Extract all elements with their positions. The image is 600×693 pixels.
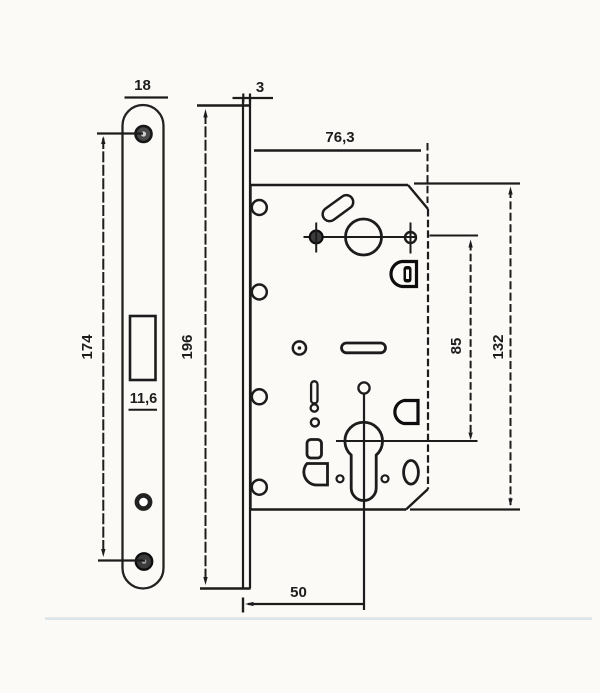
- small circle B: [311, 418, 319, 426]
- dimension 50 left arrow: [245, 602, 254, 606]
- faceplate outline: [123, 105, 164, 589]
- dimension 132 bottom extension: [410, 508, 520, 510]
- faceplate side view right edge: [249, 98, 251, 589]
- follower hole: [346, 219, 382, 255]
- dimension 196 line: [205, 113, 207, 582]
- case lug 2: [252, 285, 267, 300]
- dimension 174 top arrow: [101, 136, 105, 144]
- latch window: [130, 316, 156, 380]
- lock case left edge: [249, 185, 251, 510]
- svg-text:85: 85: [448, 338, 465, 355]
- scan artifact band: [45, 617, 592, 620]
- svg-text:174: 174: [79, 334, 96, 360]
- cylinder stem circle: [358, 382, 369, 393]
- D-shape upper hole: [391, 262, 417, 287]
- middle screw hole: [137, 495, 150, 508]
- lock case right edge: [427, 209, 429, 489]
- lock case top edge: [251, 184, 409, 186]
- euro cylinder hole: [345, 422, 383, 500]
- pivot hole with dot: [293, 341, 306, 354]
- follower center line: [304, 236, 418, 238]
- bottom screw hole: [136, 553, 152, 569]
- dimension 174 line: [102, 138, 104, 553]
- dimension 50 left tick: [242, 598, 244, 613]
- cylinder side hole right: [382, 475, 389, 482]
- lock case bottom-right chamfer: [406, 489, 428, 510]
- D-shape lower-right hole: [395, 401, 418, 424]
- case lug 4: [252, 480, 267, 495]
- svg-text:3: 3: [256, 79, 264, 96]
- D-shape lower-left hole: [304, 464, 328, 486]
- label 11,6 underline: [129, 409, 158, 411]
- dimension 85 top arrow: [468, 240, 472, 248]
- dimension 3 tick right: [249, 94, 251, 103]
- dimension 85 bottom arrow: [468, 433, 472, 441]
- left handle screw hole: [310, 223, 323, 253]
- dimension 174 top extension: [97, 132, 143, 134]
- top screw hole: [136, 126, 152, 142]
- svg-text:196: 196: [179, 334, 196, 359]
- dimension 76,3 line: [254, 149, 421, 151]
- faceplate side view bottom cap: [200, 587, 251, 590]
- dimension 18 line: [125, 96, 169, 98]
- cylinder side hole left: [337, 475, 344, 482]
- tapered slot bottom circle: [311, 404, 318, 411]
- dimension 132 bottom arrow: [508, 499, 512, 507]
- tapered slot: [311, 381, 317, 403]
- dimension 50 line: [248, 603, 364, 605]
- dimension 85 top extension: [430, 235, 479, 237]
- dimension 76,3 right extension: [427, 143, 429, 203]
- svg-text:11,6: 11,6: [130, 391, 157, 407]
- dimension 3 line: [233, 97, 274, 99]
- angled slot: [320, 192, 356, 223]
- dimension 174 bottom extension: [98, 559, 145, 561]
- faceplate side view top extension: [197, 104, 250, 106]
- case lug 3: [252, 389, 267, 404]
- svg-text:18: 18: [134, 77, 151, 94]
- svg-text:76,3: 76,3: [325, 129, 354, 146]
- lock case bottom edge: [251, 508, 407, 510]
- lock case top-right chamfer: [408, 185, 428, 209]
- square hole: [307, 440, 322, 459]
- dimension 85 line: [470, 243, 472, 437]
- dimension 3 tick left: [242, 94, 244, 103]
- horizontal slot: [342, 343, 386, 353]
- dimension 132 top extension: [414, 182, 520, 184]
- dimension 196 top arrow: [203, 109, 207, 118]
- dimension 174 bottom arrow: [101, 549, 105, 557]
- case lug 1: [252, 200, 267, 215]
- svg-text:132: 132: [490, 334, 507, 359]
- dimension 196 bottom arrow: [203, 577, 207, 585]
- faceplate side view left edge: [242, 98, 244, 589]
- cylinder center line: [363, 394, 365, 610]
- dimension 132 line: [510, 190, 512, 505]
- dimension 132 top arrow: [508, 187, 512, 195]
- oval hole: [404, 461, 419, 485]
- cylinder horizontal line: [336, 440, 478, 442]
- svg-text:50: 50: [290, 584, 307, 601]
- right handle screw hole: [405, 223, 416, 254]
